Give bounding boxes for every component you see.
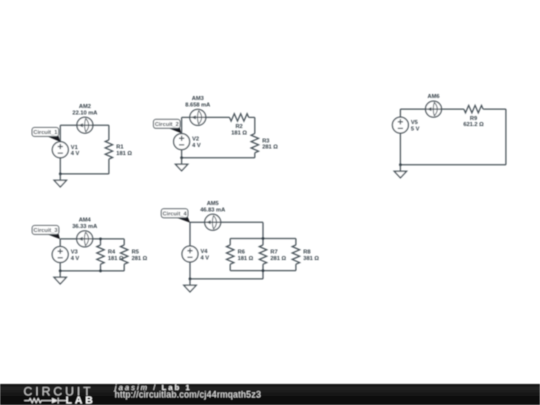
wire: [206, 116, 230, 118]
svg-text:36.33 mA: 36.33 mA: [72, 224, 97, 230]
label R5 name/value: [132, 250, 148, 262]
wire: [229, 239, 231, 246]
svg-text:R7: R7: [270, 250, 277, 256]
svg-text:Circuit_2: Circuit_2: [155, 122, 179, 128]
voltage source V4: [182, 246, 198, 262]
junction: [59, 173, 62, 176]
voltage source V1: [52, 142, 68, 158]
svg-text:V1: V1: [71, 145, 78, 151]
svg-text:4 V: 4 V: [201, 255, 210, 261]
voltage source V5: [392, 117, 408, 133]
label V4 name/value: [201, 249, 210, 261]
resistor R8: [292, 245, 299, 264]
svg-text:R3: R3: [262, 138, 269, 144]
svg-text:http://circuitlab.com/cj44rmqa: http://circuitlab.com/cj44rmqath5z3: [115, 390, 261, 400]
label V2 name/value: [192, 137, 201, 149]
svg-text:4 V: 4 V: [192, 143, 201, 149]
wire: [254, 117, 256, 133]
svg-text:181 Ω: 181 Ω: [116, 151, 132, 157]
svg-text:R1: R1: [116, 145, 123, 151]
junction: [189, 278, 192, 281]
wire: [123, 239, 125, 245]
wire: [60, 173, 109, 175]
wire: [442, 108, 464, 110]
ground: [394, 165, 406, 178]
wire: [100, 239, 102, 245]
resistor R3: [251, 134, 258, 153]
ground: [184, 279, 196, 292]
wire: [60, 270, 124, 272]
junction: [262, 237, 265, 240]
svg-text:AM5: AM5: [207, 201, 219, 207]
wire: [189, 222, 191, 246]
wire: [262, 222, 264, 238]
svg-text:22.10 mA: 22.10 mA: [72, 110, 97, 116]
svg-text:281 Ω: 281 Ω: [132, 256, 148, 262]
svg-text:R6: R6: [238, 250, 245, 256]
junction: [262, 269, 265, 272]
svg-text:V4: V4: [201, 249, 209, 255]
wire: [108, 159, 110, 174]
wire: [295, 264, 297, 270]
ground: [175, 158, 187, 171]
callout Circuit_3: [32, 226, 60, 240]
label V5 name/value: [411, 120, 420, 132]
wire: [230, 270, 296, 272]
svg-text:AM4: AM4: [79, 218, 92, 224]
wire: [221, 221, 263, 223]
junction: [399, 163, 402, 166]
label R6 name/value: [238, 250, 254, 262]
label R9 name/value: [463, 116, 484, 128]
svg-text:LAB: LAB: [66, 396, 96, 405]
svg-text:Circuit_3: Circuit_3: [34, 228, 58, 234]
wire: [123, 264, 125, 271]
svg-text:R5: R5: [132, 250, 139, 256]
svg-text:V5: V5: [411, 120, 418, 126]
svg-text:381 Ω: 381 Ω: [303, 256, 319, 262]
svg-text:281 Ω: 281 Ω: [270, 256, 286, 262]
svg-text:181 Ω: 181 Ω: [238, 256, 254, 262]
wire: [399, 109, 401, 117]
wire: [400, 164, 506, 166]
wire: [400, 108, 425, 110]
wire: [483, 108, 506, 110]
wire: [229, 264, 231, 270]
voltage source V3: [52, 247, 68, 263]
resistor R7: [259, 245, 266, 264]
wire: [189, 262, 191, 279]
label R1 name/value: [116, 145, 132, 157]
ammeter AM2: [77, 117, 93, 133]
svg-text:281 Ω: 281 Ω: [262, 145, 278, 151]
label AM6: [427, 94, 439, 100]
svg-text:V3: V3: [71, 250, 78, 256]
wire: [182, 157, 255, 159]
resistor R5: [121, 245, 128, 264]
label V1 name/value: [71, 145, 80, 157]
callout Circuit_4: [161, 209, 190, 223]
wire: [93, 124, 109, 126]
wire: [59, 263, 61, 271]
ammeter AM3: [190, 109, 206, 125]
resistor R9: [464, 105, 483, 112]
svg-text:8.658 mA: 8.658 mA: [185, 103, 210, 109]
wire: [230, 238, 296, 240]
junction: [180, 156, 183, 159]
wire: [93, 238, 125, 240]
svg-text:Circuit_1: Circuit_1: [33, 130, 57, 136]
voltage source V2: [174, 134, 190, 150]
junction: [99, 238, 102, 241]
svg-text:4 V: 4 V: [71, 151, 80, 157]
ground: [54, 174, 66, 187]
label AM3: [185, 96, 210, 108]
ammeter AM5: [205, 214, 221, 230]
label AM4: [72, 218, 97, 230]
wire: [60, 238, 76, 240]
wire: [181, 117, 183, 133]
svg-text:AM3: AM3: [192, 96, 204, 102]
label AM2: [72, 104, 97, 116]
label R4 name/value: [108, 250, 124, 262]
wire: [108, 125, 110, 140]
svg-text:5 V: 5 V: [411, 127, 420, 133]
wire: [59, 158, 61, 174]
junction: [59, 270, 62, 273]
svg-text:R9: R9: [470, 116, 477, 122]
wire: [249, 116, 255, 118]
wire: [262, 271, 264, 279]
ammeter AM4: [77, 231, 93, 247]
resistor R6: [227, 245, 234, 264]
junction: [99, 270, 102, 273]
label R3 name/value: [262, 138, 278, 150]
wire: [262, 239, 264, 246]
svg-text:181 Ω: 181 Ω: [231, 131, 247, 137]
svg-text:4 V: 4 V: [71, 256, 80, 262]
wire: [181, 150, 183, 158]
svg-text:R4: R4: [108, 250, 116, 256]
wire: [59, 239, 61, 247]
logo schematic doodle (resistor + diode): [24, 398, 66, 404]
label R8 name/value: [303, 250, 319, 262]
svg-text:V2: V2: [192, 137, 199, 143]
callout Circuit_1: [32, 128, 60, 142]
svg-text:46.83 mA: 46.83 mA: [200, 207, 225, 213]
wire: [190, 221, 205, 223]
wire: [262, 264, 264, 270]
callout Circuit_2: [154, 119, 182, 133]
wire: [254, 153, 256, 158]
wire: [190, 278, 263, 280]
svg-text:AM6: AM6: [427, 94, 439, 100]
wire: [399, 133, 401, 165]
resistor R4: [97, 245, 104, 264]
wire: [100, 264, 102, 271]
wire: [182, 116, 190, 118]
ground: [54, 271, 66, 284]
wire: [59, 125, 61, 142]
svg-text:R2: R2: [235, 124, 242, 130]
resistor R1: [105, 140, 112, 159]
svg-text:AM2: AM2: [79, 104, 91, 110]
ammeter AM6: [426, 101, 442, 117]
label R2 name/value: [231, 124, 247, 136]
svg-text:621.2 Ω: 621.2 Ω: [463, 122, 484, 128]
label V3 name/value: [71, 250, 80, 262]
svg-text:R8: R8: [303, 250, 310, 256]
label AM5: [200, 201, 225, 213]
wire: [505, 109, 507, 165]
wire: [60, 124, 77, 126]
label R7 name/value: [270, 250, 286, 262]
wire: [295, 239, 297, 246]
svg-text:Circuit_4: Circuit_4: [163, 212, 188, 218]
resistor R2: [230, 114, 249, 121]
